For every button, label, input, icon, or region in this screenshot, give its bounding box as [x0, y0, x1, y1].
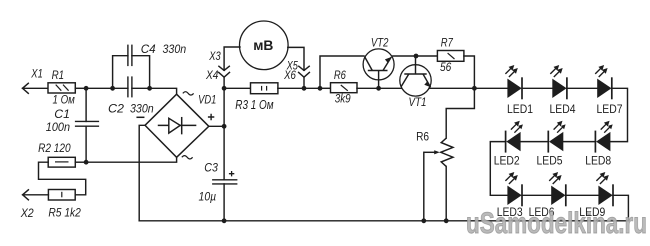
wire C2 to node C — [132, 87, 150, 89]
ac mark bottom — [182, 156, 193, 159]
diode lead inside VD1 — [159, 124, 196, 126]
svg-text:LED5: LED5 — [537, 153, 563, 167]
wire node J to R7 — [416, 55, 437, 57]
wire node B up to C4 — [113, 56, 128, 89]
wire node A down to C1 — [85, 88, 87, 121]
resistor R2 — [48, 157, 75, 167]
wire node H up to VT2 collector — [320, 56, 364, 88]
wire bridge minus to bottom rail — [139, 125, 145, 221]
minus mark — [137, 116, 144, 118]
node I junction VT2 base — [376, 86, 381, 91]
resistor R1 — [48, 83, 75, 93]
wire meter right — [288, 47, 304, 70]
node C3 bottom — [222, 218, 227, 223]
svg-text:R6: R6 — [334, 68, 346, 82]
wire node E down to C3 — [223, 126, 225, 180]
svg-text:VD1: VD1 — [198, 92, 216, 106]
wire LED6 to LED9 — [566, 194, 599, 196]
LED3 — [505, 172, 522, 206]
svg-text:LED8: LED8 — [585, 153, 611, 167]
wire LED3 to LED6 — [522, 194, 551, 196]
LED9 — [596, 172, 613, 206]
svg-text:X4: X4 — [205, 70, 218, 82]
node D junction — [84, 160, 89, 165]
LED2 — [506, 121, 523, 153]
capacitor C1 top plate — [76, 120, 99, 122]
svg-text:10µ: 10µ — [199, 189, 217, 203]
plus mark — [208, 114, 214, 120]
wire pot bottom to rail — [445, 166, 447, 220]
wire node D to bridge bottom — [86, 157, 177, 162]
wire node F to R3 — [224, 87, 250, 89]
wire R3 to node G — [278, 87, 304, 89]
node F junction — [222, 86, 227, 91]
wire wiper down to rail — [423, 152, 425, 221]
wire node C to bridge top — [150, 88, 177, 94]
node J junction — [414, 54, 419, 59]
resistor R3 — [251, 83, 278, 94]
wire X6 to node G — [303, 77, 305, 88]
svg-text:R1: R1 — [52, 68, 65, 82]
svg-text:R3 1 Ом: R3 1 Ом — [235, 98, 274, 112]
svg-text:C4: C4 — [141, 42, 156, 56]
ac mark top — [183, 92, 194, 95]
capacitor C2 right plate — [131, 77, 133, 97]
svg-text:C2: C2 — [108, 102, 124, 116]
wire R2 left loop to R5 — [39, 162, 86, 195]
pot wiper arrow — [424, 150, 440, 154]
wire LED4 to LED7 — [567, 87, 597, 89]
svg-text:мВ: мВ — [253, 38, 273, 53]
node C junction — [147, 86, 152, 91]
LED5 — [548, 121, 565, 153]
resistor R5 — [48, 190, 75, 201]
node G junction — [302, 86, 307, 91]
wire node K to LED1 — [474, 87, 507, 89]
wire node A to node B — [86, 87, 113, 89]
svg-text:LED1: LED1 — [507, 102, 533, 116]
wire LED5 to LED2 — [521, 141, 549, 143]
wire meter left — [224, 47, 240, 70]
potentiometer R6 zigzag — [441, 138, 453, 166]
node pot bottom — [444, 218, 449, 223]
terminal X1 arrow — [23, 83, 29, 93]
svg-text:3k9: 3k9 — [335, 92, 351, 106]
wire R1 to node A — [75, 87, 86, 89]
node K junction — [472, 86, 477, 91]
capacitor C3 bottom plate — [213, 183, 237, 185]
LED4 — [550, 65, 567, 99]
wire LED1 to LED4 — [522, 87, 552, 89]
wire C1 to node D — [85, 126, 87, 162]
LED7 — [595, 65, 612, 99]
wire R6 to VT2 base node — [357, 87, 379, 89]
diode triangle inside VD1 — [169, 118, 180, 133]
connector X3 arrow — [219, 66, 229, 70]
capacitor C1 bottom plate — [76, 125, 99, 127]
capacitor C4 right plate — [131, 45, 133, 65]
svg-text:330n: 330n — [163, 42, 187, 56]
wire node I to VT1 — [379, 87, 402, 89]
wire row2 to row3 — [490, 142, 507, 196]
wire VT1 emitter to node K — [429, 87, 474, 89]
node E junction — [222, 124, 227, 129]
wire node E to node F vertical — [223, 88, 225, 126]
svg-text:56: 56 — [440, 60, 451, 74]
svg-text:VT2: VT2 — [371, 36, 389, 50]
node B junction — [110, 86, 115, 91]
LED6 — [549, 172, 566, 206]
svg-text:LED7: LED7 — [597, 102, 623, 116]
connector X6 socket — [299, 72, 310, 77]
wire R5 to X2 — [23, 194, 49, 196]
wire X1 to R1 — [23, 87, 49, 89]
svg-text:X2: X2 — [20, 206, 34, 220]
wire R7 to node K — [464, 56, 475, 88]
wire row3 to rail — [613, 195, 628, 221]
svg-text:R7: R7 — [441, 36, 454, 50]
svg-text:LED4: LED4 — [550, 102, 576, 116]
connector X5 arrow — [299, 66, 309, 70]
diode cathode bar inside VD1 — [181, 118, 183, 134]
wire bottom rail — [139, 220, 628, 222]
LED8 — [595, 121, 612, 153]
C3 plus mark — [229, 171, 234, 176]
svg-text:330n: 330n — [130, 102, 154, 116]
svg-text:100n: 100n — [46, 120, 70, 134]
wire C3 to rail — [223, 184, 225, 221]
node A junction — [84, 86, 89, 91]
LED1 — [505, 65, 522, 99]
svg-text:VT1: VT1 — [409, 95, 427, 109]
svg-text:X6: X6 — [283, 70, 296, 82]
resistor R6 3k9 — [331, 83, 358, 93]
capacitor C2 left plate — [127, 77, 129, 97]
svg-text:R5 1k2: R5 1k2 — [48, 206, 81, 220]
wire node B to C2 — [113, 87, 128, 89]
transistor VT2 — [363, 49, 394, 88]
transistor VT1 — [400, 56, 431, 96]
node H junction — [318, 86, 323, 91]
node wiper bottom — [421, 218, 426, 223]
capacitor C4 left plate — [127, 45, 129, 65]
svg-text:uSamodelkina.ru: uSamodelkina.ru — [466, 207, 647, 240]
terminal X2 arrow — [23, 190, 29, 200]
wire node H to R6 — [320, 87, 331, 89]
svg-text:X3: X3 — [208, 51, 221, 63]
wire node K down to pot — [446, 88, 474, 138]
wire row1 to row2 — [610, 88, 627, 141]
svg-text:1 Ом: 1 Ом — [53, 92, 75, 106]
svg-text:R2 120: R2 120 — [38, 141, 71, 155]
resistor R7 — [437, 51, 464, 62]
wire R2 to node D — [75, 161, 86, 163]
svg-text:LED2: LED2 — [494, 153, 520, 167]
svg-text:R6: R6 — [416, 131, 429, 143]
wire node G to node H — [304, 87, 320, 89]
wire bridge plus to node E — [209, 125, 224, 127]
bridge rectifier VD1 diamond — [145, 94, 209, 157]
svg-text:X1: X1 — [30, 68, 42, 80]
connector X4 socket — [219, 72, 230, 77]
wire LED8 to LED5 — [563, 141, 595, 143]
wire C4 down to node C — [132, 56, 150, 89]
wire X4 to node F — [223, 77, 225, 88]
capacitor C3 top plate — [213, 179, 237, 181]
svg-text:C3: C3 — [204, 161, 218, 175]
wire VT2 emitter to node J — [393, 55, 416, 57]
millivoltmeter PV1 circle — [239, 21, 288, 70]
